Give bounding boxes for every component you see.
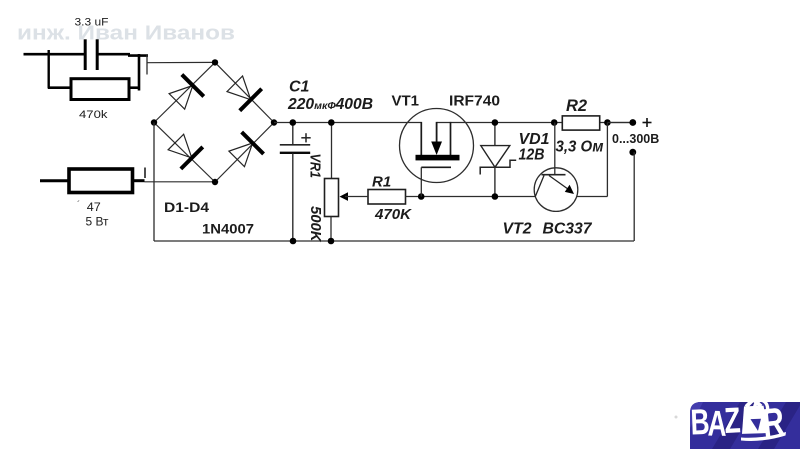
resistor 47 body — [69, 169, 133, 193]
wire emitter riser — [606, 123, 608, 197]
svg-text:R2: R2 — [566, 97, 587, 115]
bazar logo bag over A — [741, 406, 768, 434]
svg-text:Z: Z — [723, 399, 741, 441]
potentiometer VR1 lead bottom — [330, 217, 332, 242]
svg-text:47: 47 — [87, 202, 101, 214]
diode D3 — [165, 131, 204, 170]
svg-text:VT2: VT2 — [503, 221, 532, 238]
resistor R2 body — [562, 116, 599, 130]
zener diode VD1 top lead — [494, 123, 496, 146]
terminal plus — [629, 119, 636, 126]
transistor VT2 emitter arrowhead — [565, 185, 574, 194]
transistor VT1 gate line — [421, 166, 451, 168]
wire gate net — [406, 196, 536, 198]
svg-text:D1-D4: D1-D4 — [164, 199, 209, 215]
wire minus down — [633, 152, 635, 241]
node VR1 top — [328, 119, 335, 126]
wire bottom rail — [154, 240, 634, 242]
transistor VT1 source lead — [450, 122, 452, 155]
transistor VT1 substrate arrowhead — [431, 142, 442, 156]
bazar logo background — [690, 402, 800, 449]
resistor 470k body — [71, 79, 129, 100]
transistor VT2 base bar — [542, 174, 566, 176]
node VR1 bottom — [328, 238, 335, 245]
bazar logo letter R — [760, 400, 786, 446]
svg-text:470K: 470K — [374, 206, 412, 223]
wire to plus output — [607, 122, 632, 124]
diode D2 — [224, 73, 263, 112]
wire input top right of capacitor — [97, 53, 131, 56]
potentiometer VR1 lead top — [331, 123, 333, 179]
resistor R1 left lead — [345, 196, 368, 198]
svg-text:5 Вт: 5 Вт — [86, 217, 110, 229]
capacitor C1 plates — [280, 144, 310, 146]
svg-text:C1: C1 — [289, 79, 310, 96]
capacitor C1 lead bottom — [292, 154, 294, 242]
svg-text:VR1: VR1 — [307, 154, 323, 179]
resistor 47 right lead — [133, 179, 145, 182]
svg-text:инж. Иван Иванов: инж. Иван Иванов — [17, 22, 235, 45]
wire top rail — [274, 122, 421, 124]
svg-text:12В: 12В — [519, 147, 545, 164]
transistor VT1 drain lead — [420, 122, 422, 155]
svg-text:3,3 Ом: 3,3 Ом — [556, 139, 604, 156]
svg-text:470k: 470k — [79, 109, 108, 121]
svg-text:´: ´ — [77, 199, 80, 211]
terminal minus — [629, 149, 636, 156]
node bracket left — [48, 50, 50, 89]
node C1 bottom — [290, 238, 297, 245]
transistor VT1 gate lead — [420, 167, 422, 196]
svg-text:0...300В: 0...300В — [612, 132, 659, 146]
wire emitter to R2 right — [577, 196, 608, 198]
transistor VT1 channel bar — [416, 155, 460, 161]
svg-text:500K: 500K — [307, 206, 323, 243]
wire to bridge bottom — [145, 181, 216, 183]
capacitor C1 lead top — [292, 123, 294, 145]
node gate junction — [418, 193, 425, 200]
transistor VT2 circle — [534, 168, 578, 212]
zener diode VD1 triangle — [481, 146, 510, 168]
transistor VT2 collector diagonal — [535, 176, 544, 197]
resistor R1 body — [368, 190, 406, 205]
svg-text:VD1: VD1 — [519, 131, 550, 148]
diode D1 — [166, 73, 205, 112]
svg-text:BC337: BC337 — [543, 221, 593, 238]
bazar logo swoosh — [741, 432, 786, 441]
bridge rectifier frame — [154, 62, 274, 182]
resistor 470k left lead — [48, 86, 71, 89]
node bridge top — [212, 59, 218, 65]
speck — [675, 416, 678, 419]
capacitor C1 plus — [301, 133, 310, 142]
wire left rail down — [153, 123, 155, 242]
transistor VT2 emitter diagonal — [549, 176, 570, 191]
bazar logo letter B — [690, 401, 710, 443]
svg-text:R1: R1 — [372, 173, 391, 190]
svg-text:IRF740: IRF740 — [449, 94, 500, 110]
svg-text:VT1: VT1 — [392, 94, 420, 110]
zener diode VD1 bottom lead — [494, 167, 496, 197]
node bridge bottom — [212, 179, 218, 185]
stub at resistor 47 right — [144, 168, 146, 179]
node bridge left — [151, 119, 157, 125]
zener diode VD1 cathode bar — [480, 160, 516, 174]
resistor 470k right lead — [129, 86, 140, 89]
wire input top — [24, 53, 86, 56]
node bridge right — [271, 119, 277, 125]
svg-text:3.3 uF: 3.3 uF — [75, 17, 109, 29]
svg-text:220мкФ400В: 220мкФ400В — [287, 96, 373, 113]
node C1 top — [290, 119, 297, 126]
wire top rail right — [437, 122, 633, 124]
capacitor C 3.3uF — [84, 39, 87, 70]
transistor VT2 base lead — [554, 123, 556, 175]
node bracket right — [138, 54, 141, 91]
plus sign — [643, 118, 652, 127]
wire to bridge top — [147, 61, 215, 63]
diode D4 — [226, 131, 265, 170]
bazar logo bag handle — [746, 399, 768, 418]
node R2 left — [551, 119, 558, 126]
node R2 right — [604, 119, 611, 126]
node VD1 top — [492, 119, 499, 126]
transistor VT1 circle — [400, 109, 474, 183]
node VD1 bottom — [492, 193, 499, 200]
bazar logo letter A — [707, 402, 727, 443]
potentiometer VR1 body — [325, 179, 339, 217]
svg-text:1N4007: 1N4007 — [202, 222, 254, 237]
bazar logo letter Z — [723, 399, 741, 441]
resistor 47 left lead — [40, 179, 69, 182]
wire stub to bridge — [146, 55, 148, 75]
potentiometer VR1 wiper arrow — [340, 192, 349, 201]
transistor VT1 substrate arrow lead — [436, 122, 438, 143]
